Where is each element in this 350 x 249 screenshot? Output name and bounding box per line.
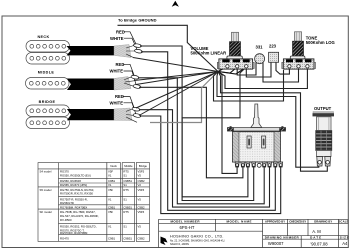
svg-text:BRIDGE: BRIDGE <box>39 100 56 104</box>
wire bridge red to switch lug6 <box>139 110 270 207</box>
svg-text:CHECKED BY: CHECKED BY <box>289 220 306 224</box>
capacitor C2 223 leg left <box>246 62 271 77</box>
svg-text:C9B2: C9B2 <box>138 205 145 209</box>
svg-text:APPROVED BY: APPROVED BY <box>265 220 285 224</box>
registration triangle <box>172 1 179 7</box>
svg-text:RG470: RG470 <box>60 237 69 241</box>
switch SW1 5-way lever <box>251 104 262 128</box>
svg-text:WHITE: WHITE <box>110 36 124 41</box>
svg-text:S1: S1 <box>123 173 127 177</box>
svg-text:S4 model: S4 model <box>40 170 52 174</box>
svg-text:DRAWING BY: DRAWING BY <box>314 220 332 224</box>
svg-text:WHITE: WHITE <box>110 69 124 74</box>
wire bridge bare 1 to ground node <box>136 72 218 109</box>
potentiometer VOLUME body <box>219 59 253 69</box>
switch center ground lug <box>257 163 261 167</box>
svg-text:SIZE: SIZE <box>340 236 349 240</box>
svg-text:RX750GR, RX170, RX350: RX750GR, RX170, RX350 <box>60 192 93 196</box>
connector neck white <box>134 49 142 54</box>
svg-text:V2: V2 <box>138 183 142 187</box>
svg-text:NECK: NECK <box>37 35 49 39</box>
fan wires bridge <box>126 109 137 122</box>
wire volume lug3 to switch lug4 <box>182 67 254 201</box>
capacitor C2 223 leg right to tone lug1 <box>276 62 289 74</box>
svg-text:S1: S1 <box>123 183 127 187</box>
svg-text:V1: V1 <box>108 225 112 229</box>
svg-text:C9B1: C9B1 <box>108 237 115 241</box>
svg-text:DATE: DATE <box>310 236 321 240</box>
svg-text:223: 223 <box>269 44 277 49</box>
wire bridge braid to ground node <box>150 72 218 123</box>
svg-text:RT5: RT5 <box>123 210 129 214</box>
svg-text:C9B1: C9B1 <box>108 205 115 209</box>
svg-text:MIDDLE: MIDDLE <box>38 70 55 74</box>
svg-text:V1: V1 <box>108 198 112 202</box>
capacitor C1 331 leg left to volume lug3 <box>237 63 256 76</box>
wire neck red to switch lug3 <box>140 46 248 197</box>
svg-text:V5F5: V5F5 <box>138 210 145 214</box>
ground node stubs to volume lugs <box>218 67 227 72</box>
pickup NECK coil 2 <box>26 53 70 65</box>
svg-text:V1: V1 <box>108 183 112 187</box>
braid fan middle <box>114 77 131 91</box>
tone lug holes pin1 pin2 pin3 <box>288 65 291 68</box>
wire bridge bare 2 to ground node <box>139 72 218 116</box>
wire node to switch lug1 <box>218 72 237 174</box>
svg-text:RG570DX, RG570BM: RG570DX, RG570BM <box>60 231 88 235</box>
connector bridge white <box>133 113 141 118</box>
leader white middle <box>124 71 137 85</box>
connector middle red <box>131 75 139 80</box>
potentiometer TONE body <box>283 59 314 69</box>
wire node bus to output jack sleeve <box>218 72 327 172</box>
wire middle red to switch lug5 <box>138 78 264 204</box>
svg-text:V5: V5 <box>138 225 142 229</box>
capacitor C1 331 leg right to tone lug2 <box>263 63 299 83</box>
svg-text:RG550, RG550LTD (EU): RG550, RG550LTD (EU) <box>60 173 91 177</box>
braid fan bridge <box>114 108 132 121</box>
svg-text:S5 model: S5 model <box>40 188 52 192</box>
svg-text:C9B2: C9B2 <box>138 237 145 241</box>
wire middle bare 1 to ground node <box>134 72 218 81</box>
svg-text:SCALE: SCALE <box>338 220 348 224</box>
svg-text:RG565, RG570 (JPN): RG565, RG570 (JPN) <box>60 183 87 187</box>
svg-text:V5: V5 <box>138 173 142 177</box>
svg-text:DRAWING NUMBER: DRAWING NUMBER <box>265 236 300 240</box>
leader red neck <box>124 32 137 44</box>
title block <box>159 219 349 247</box>
svg-text:SK model: SK model <box>40 210 53 214</box>
svg-text:NAGOYA, JAPAN: NAGOYA, JAPAN <box>170 243 189 246</box>
cable neck (shielded) <box>67 46 115 55</box>
svg-text:Neck: Neck <box>110 164 117 168</box>
switch mounting plate <box>228 128 286 131</box>
svg-text:331: 331 <box>256 45 264 50</box>
model table <box>38 163 150 242</box>
wire neck white to switch lug7 <box>141 52 275 211</box>
cable middle <box>67 79 114 91</box>
volume lug slots <box>222 59 229 62</box>
svg-text:W90007: W90007 <box>268 241 284 246</box>
output jack J1 <box>313 112 334 113</box>
svg-text:To Bridge GROUND: To Bridge GROUND <box>118 17 157 22</box>
svg-text:RT5: RT5 <box>123 188 129 192</box>
leader white neck <box>124 38 137 49</box>
svg-text:A4: A4 <box>342 241 348 246</box>
svg-text:OUTPUT: OUTPUT <box>314 106 332 111</box>
switch lugs 1-8 <box>235 162 283 167</box>
svg-text:500Kohm LINEAR: 500Kohm LINEAR <box>191 50 227 55</box>
svg-text:HOSHINO GAKKI CO., LTD.: HOSHINO GAKKI CO., LTD. <box>170 234 224 238</box>
pickup BRIDGE coil 1 <box>26 105 70 117</box>
wire node bus to tone lug3 <box>218 68 307 89</box>
svg-text:6PS-HT: 6PS-HT <box>180 225 195 230</box>
wire node bus to tone casing <box>214 70 284 101</box>
fan wires neck <box>126 45 135 57</box>
wire to bridge ground <box>118 25 219 71</box>
svg-text:V5F: V5F <box>108 188 113 192</box>
svg-text:V5F: V5F <box>108 210 113 214</box>
connector middle white <box>133 84 141 89</box>
svg-text:S1: S1 <box>123 225 127 229</box>
switch body <box>233 132 281 162</box>
svg-text:RX-R500: RX-R500 <box>60 218 72 222</box>
wire node bus to output jack tip <box>217 72 319 168</box>
pickup NECK coil 1 <box>26 41 70 53</box>
pickup BRIDGE coil 2 <box>26 117 70 129</box>
jack lugs tip sleeve <box>317 157 323 167</box>
potentiometer VOLUME shaft <box>232 32 239 41</box>
svg-text:V5F5: V5F5 <box>138 188 145 192</box>
wire bridge white to switch lug8 <box>140 116 281 214</box>
wire middle bare 2 to ground node <box>136 72 218 85</box>
svg-text:V1: V1 <box>108 173 112 177</box>
svg-text:Middle: Middle <box>124 164 133 168</box>
braid fan neck <box>114 45 131 58</box>
svg-text:S1: S1 <box>123 198 127 202</box>
svg-text:RG760BM, RG470BX: RG760BM, RG470BX <box>60 205 87 209</box>
svg-text:MODEL NUMBER: MODEL NUMBER <box>171 220 201 224</box>
svg-text:'90.07.08: '90.07.08 <box>310 241 328 246</box>
switch contact slots <box>247 136 251 148</box>
svg-text:C9B51: C9B51 <box>123 205 132 209</box>
svg-text:C9B51: C9B51 <box>123 237 132 241</box>
svg-text:Bridge: Bridge <box>139 164 148 168</box>
tone lug slots <box>286 59 293 62</box>
svg-text:A. M: A. M <box>312 229 321 234</box>
leader red bridge <box>123 97 135 108</box>
ground node <box>217 71 219 73</box>
volume lug holes pin1 pin2 pin3 <box>226 65 229 68</box>
connector neck red <box>133 43 141 47</box>
wire middle white to switch lug2 <box>139 87 243 178</box>
svg-text:WHITE: WHITE <box>110 100 124 105</box>
hoshino logo <box>161 237 168 246</box>
fan wires middle <box>124 77 134 86</box>
svg-text:V5: V5 <box>138 198 142 202</box>
svg-text:500Kohm LOG: 500Kohm LOG <box>306 40 335 45</box>
leader white bridge <box>124 103 137 115</box>
potentiometer TONE shaft <box>295 32 302 41</box>
pickup MIDDLE coil <box>26 78 70 90</box>
cable bridge <box>67 109 114 120</box>
wire neck bare to ground node <box>133 58 218 72</box>
svg-text:MODEL NAME: MODEL NAME <box>227 220 252 224</box>
leader red middle <box>123 64 134 75</box>
connector bridge red <box>132 107 140 112</box>
